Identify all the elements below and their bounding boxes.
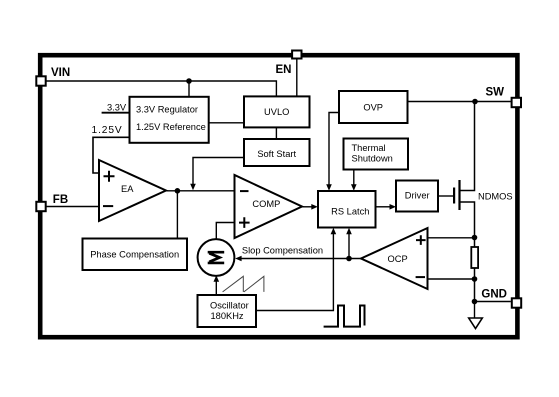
svg-text:SW: SW	[485, 87, 504, 99]
block Thermal Shutdown	[344, 139, 409, 170]
block UVLO	[244, 96, 310, 127]
svg-text:UVLO: UVLO	[264, 107, 289, 117]
svg-text:180KHz: 180KHz	[211, 311, 244, 321]
transistor NDMOS channel bar	[458, 180, 460, 210]
block Soft Start	[244, 139, 310, 166]
wire regulator to UVLO	[209, 122, 244, 124]
svg-text:EN: EN	[276, 64, 292, 76]
wire Soft Start to EA output (arrow down)	[190, 158, 244, 191]
comparator COMP	[235, 175, 303, 238]
ground	[469, 318, 483, 329]
resistor sense	[471, 247, 478, 268]
wire NDMOS source down	[461, 202, 475, 238]
svg-text:1.25V: 1.25V	[92, 125, 123, 136]
wire junction to regulator	[188, 81, 190, 97]
svg-text:NDMOS: NDMOS	[478, 192, 513, 202]
svg-text:Thermal: Thermal	[352, 143, 386, 153]
svg-text:Slop Compensation: Slop Compensation	[242, 245, 323, 255]
svg-text:VIN: VIN	[51, 67, 70, 79]
label NDMOS	[478, 192, 513, 202]
wire EN to UVLO	[296, 60, 298, 97]
svg-text:3.3V: 3.3V	[107, 103, 127, 113]
wire OCP plus input	[428, 237, 475, 239]
pin SW	[485, 87, 521, 108]
wire OCP output to RS Latch (arrow up)	[346, 228, 352, 259]
wire GND node to ground symbol	[474, 302, 476, 319]
wire OCP output to summer (arrow left)	[235, 256, 361, 262]
svg-text:1.25V Reference: 1.25V Reference	[136, 122, 206, 132]
IC boundary	[40, 55, 517, 337]
node OCP output junction	[346, 256, 352, 262]
svg-text:RS Latch: RS Latch	[331, 207, 369, 217]
wire FB to EA minus input	[47, 206, 100, 208]
transistor NDMOS gate bar	[453, 188, 455, 204]
regulator block 3.3V/1.25V	[130, 97, 209, 143]
wire OCP minus input	[428, 278, 475, 280]
wire Driver to NDMOS gate	[438, 195, 453, 197]
waveform sawtooth	[223, 276, 264, 292]
node EA output junction	[175, 188, 181, 194]
svg-text:GND: GND	[481, 289, 507, 301]
wire through resistor	[474, 238, 476, 302]
wire NDMOS drain to SW node	[461, 102, 475, 191]
waveform square pulses	[324, 306, 365, 327]
svg-text:Oscillator: Oscillator	[210, 300, 249, 310]
net label 1.25V	[92, 125, 123, 136]
svg-text:Soft Start: Soft Start	[257, 149, 296, 159]
node GND junction	[472, 299, 478, 305]
pin GND	[481, 289, 521, 308]
wire summer to COMP plus input	[216, 223, 234, 240]
svg-text:FB: FB	[53, 194, 68, 206]
wire VIN to UVLO	[47, 81, 277, 96]
svg-text:Shutdown: Shutdown	[352, 154, 393, 164]
wire UVLO to Soft Start	[275, 127, 277, 139]
node SW junction	[472, 99, 478, 105]
wire EA output to COMP minus input	[166, 190, 235, 192]
pin VIN	[36, 67, 70, 86]
block Phase Compensation	[83, 239, 188, 271]
pin EN	[276, 51, 302, 77]
op-amp EA	[99, 160, 166, 221]
wire 1.25V to EA plus input	[93, 137, 130, 173]
net label 3.3V	[107, 103, 127, 113]
svg-text:OCP: OCP	[388, 254, 408, 264]
svg-text:EA: EA	[121, 184, 134, 194]
pin FB	[36, 194, 68, 211]
wire OVP to RS Latch (arrow down)	[326, 113, 339, 191]
wire Oscillator to RS Latch (arrow up)	[256, 228, 336, 311]
net 3.3V stub	[102, 112, 130, 114]
block OVP	[339, 91, 408, 123]
block Oscillator 180KHz	[198, 295, 257, 327]
wire Thermal Shutdown to RS Latch (arrow down)	[351, 170, 357, 191]
wire GND node to pin	[475, 301, 511, 303]
svg-text:Phase Compensation: Phase Compensation	[90, 250, 179, 260]
summer sigma	[198, 239, 235, 276]
wire COMP to RS Latch (arrow)	[302, 204, 318, 210]
svg-text:3.3V Regulator: 3.3V Regulator	[136, 105, 198, 115]
svg-text:Driver: Driver	[405, 190, 430, 200]
wire RS Latch to Driver (arrow)	[376, 204, 397, 210]
svg-text:OVP: OVP	[363, 103, 383, 113]
node OCP plus junction	[472, 235, 478, 241]
node OCP minus junction	[472, 276, 478, 282]
comparator OCP	[361, 228, 428, 289]
node VIN junction	[186, 78, 192, 84]
svg-text:COMP: COMP	[252, 199, 280, 209]
wire junction to Phase Compensation	[176, 191, 178, 239]
label Slop Compensation	[242, 245, 323, 255]
block RS Latch	[318, 191, 376, 228]
block Driver	[396, 181, 438, 212]
wire OVP to SW node	[408, 101, 511, 103]
wire Oscillator to summer (arrow up)	[214, 275, 220, 295]
